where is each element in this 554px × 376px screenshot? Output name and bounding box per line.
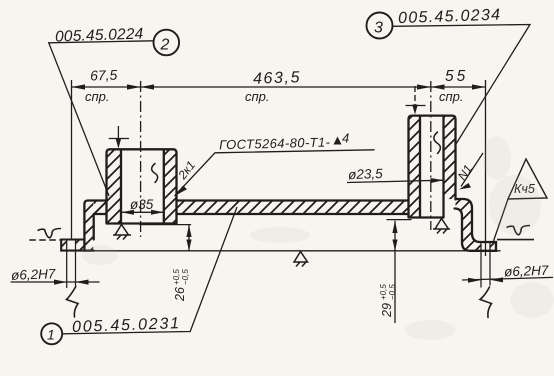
- svg-text:463,5: 463,5: [253, 69, 302, 88]
- svg-text:1: 1: [47, 327, 55, 343]
- svg-text:ГОСТ5264-80-Т1-: ГОСТ5264-80-Т1-: [219, 134, 331, 152]
- left end: bent wall + foot flange of base plate: [61, 201, 106, 251]
- break mark under right foot hole: [480, 287, 492, 318]
- svg-text:спр.: спр.: [245, 89, 270, 104]
- leader of weld note with arrowhead: [175, 150, 375, 196]
- extension line right hole center: [485, 80, 487, 256]
- svg-text:3: 3: [374, 20, 383, 37]
- svg-text:ø6,2Н7: ø6,2Н7: [504, 263, 549, 280]
- down arrow onto left boss: [109, 126, 129, 149]
- support symbol under mid plate: [294, 252, 308, 267]
- base plate (hatched web), main span: [177, 201, 409, 215]
- break squiggle inside right boss bore: [434, 132, 441, 154]
- leader and underline of callout 3: [393, 25, 531, 145]
- dimension line 67,5 / 463,5 / 55: [72, 86, 486, 88]
- svg-text:+0,5: +0,5: [172, 269, 181, 285]
- support symbol under left boss: [113, 225, 131, 240]
- break squiggle inside left boss bore: [152, 164, 158, 183]
- svg-text:−0,5: −0,5: [388, 284, 397, 300]
- svg-text:ø6,2Н7: ø6,2Н7: [11, 266, 56, 283]
- extension line at right boss bottom: [387, 219, 411, 221]
- svg-text:55: 55: [445, 68, 468, 85]
- svg-text:005.45.0224: 005.45.0224: [55, 25, 144, 45]
- svg-text:спр.: спр.: [439, 89, 464, 104]
- hole lines of left foot hole (d6,2): [67, 240, 76, 288]
- leader and underline of callout 2: [49, 41, 154, 196]
- svg-text:4: 4: [342, 131, 349, 146]
- svg-text:26: 26: [173, 287, 187, 302]
- arrowheads dimension row: [72, 84, 86, 89]
- svg-text:67,5: 67,5: [90, 67, 118, 84]
- svg-text:005.45.0234: 005.45.0234: [398, 7, 502, 28]
- svg-text:спр.: спр.: [85, 89, 110, 104]
- extension line left hole center: [71, 80, 73, 240]
- svg-text:+0,5: +0,5: [379, 284, 388, 300]
- support symbol under right boss: [433, 219, 450, 234]
- break mark under left foot hole: [67, 287, 79, 318]
- svg-text:−0,5: −0,5: [181, 269, 190, 285]
- extension line at left boss bottom: [140, 224, 191, 226]
- leader from triangle to right flange: [494, 199, 509, 241]
- right end: Z-bend and foot flange of base plate: [455, 199, 497, 251]
- svg-text:ø23,5: ø23,5: [348, 166, 384, 182]
- svg-text:29: 29: [380, 303, 394, 318]
- roughness mark left: [29, 229, 61, 241]
- svg-text:ø35: ø35: [130, 197, 154, 212]
- right boss (bushing): [409, 116, 456, 218]
- left boss (bushing): [107, 149, 177, 223]
- base plate (hatched web), left stub: [94, 201, 107, 215]
- ground/datum line along part bottom: [61, 250, 500, 252]
- leader and underline of callout 1: [62, 207, 237, 334]
- down arrow onto right boss: [406, 86, 426, 115]
- roughness mark right: [497, 226, 534, 240]
- centerline right boss: [430, 81, 432, 230]
- hole lines of right foot hole (d6,2): [481, 242, 490, 287]
- svg-text:2: 2: [160, 37, 170, 54]
- scan tone blotches: [82, 136, 554, 340]
- centerline left boss: [140, 81, 142, 237]
